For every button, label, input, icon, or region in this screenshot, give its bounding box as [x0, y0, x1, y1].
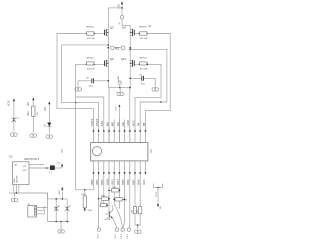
svg-text:LM2574HVN-5: LM2574HVN-5	[24, 159, 40, 161]
svg-text:GND: GND	[105, 179, 109, 185]
svg-text:X3-1: X3-1	[115, 233, 117, 238]
svg-text:OSC2: OSC2	[95, 118, 99, 126]
svg-text:SB: SB	[142, 122, 146, 126]
svg-text:100u: 100u	[44, 206, 46, 210]
svg-text:X2-1: X2-1	[97, 233, 99, 238]
svg-text:IRFZ44: IRFZ44	[139, 57, 147, 59]
svg-text:M1: M1	[115, 46, 120, 50]
svg-text:10k: 10k	[37, 112, 39, 115]
svg-text:R2 10R: R2 10R	[140, 38, 148, 40]
svg-text:R1 10R: R1 10R	[87, 38, 95, 40]
svg-text:R13: R13	[123, 199, 128, 201]
svg-text:X3-3: X3-3	[127, 233, 129, 238]
svg-text:Q4: Q4	[122, 26, 126, 30]
svg-text:ON/OFF: ON/OFF	[17, 175, 19, 183]
svg-text:T1: T1	[105, 213, 108, 215]
svg-text:R4 10R: R4 10R	[140, 69, 148, 71]
svg-text:RA1: RA1	[142, 179, 146, 185]
svg-text:IC1: IC1	[61, 148, 64, 152]
svg-text:C7: C7	[68, 206, 71, 208]
svg-text:MB: MB	[111, 122, 115, 126]
svg-text:F1: F1	[119, 21, 121, 24]
svg-text:+5V: +5V	[44, 107, 47, 112]
svg-text:+12V: +12V	[117, 4, 120, 10]
svg-text:VCC: VCC	[131, 120, 135, 126]
svg-text:D2: D2	[44, 124, 46, 127]
svg-text:RB6: RB6	[126, 179, 130, 185]
svg-text:MA: MA	[105, 122, 109, 126]
svg-text:RB4: RB4	[116, 179, 120, 185]
svg-text:+5V: +5V	[116, 106, 118, 110]
svg-text:C4: C4	[16, 118, 19, 120]
svg-text:GND: GND	[14, 178, 16, 183]
svg-text:GND: GND	[126, 120, 130, 126]
svg-text:+5V: +5V	[56, 163, 60, 165]
svg-text:RB7: RB7	[131, 179, 135, 185]
svg-text:+12V: +12V	[59, 190, 61, 196]
svg-text:RB3: RB3	[111, 179, 115, 185]
svg-text:RA4: RA4	[100, 120, 104, 126]
svg-text:(2): (2)	[148, 25, 151, 28]
svg-text:RB5: RB5	[121, 179, 125, 185]
svg-text:C6: C6	[57, 206, 60, 208]
svg-text:GND: GND	[118, 75, 120, 80]
svg-text:RB0: RB0	[90, 179, 94, 185]
svg-text:Q9: Q9	[110, 57, 114, 61]
svg-text:IC1: IC1	[150, 148, 153, 152]
svg-text:VM: VM	[160, 206, 162, 209]
svg-text:+5V: +5V	[27, 102, 30, 107]
svg-text:100n: 100n	[141, 83, 145, 85]
svg-text:RB1: RB1	[95, 179, 99, 185]
svg-text:GND: GND	[87, 210, 92, 212]
svg-text:L1: L1	[49, 172, 52, 174]
svg-text:X3-2: X3-2	[121, 233, 123, 238]
svg-text:SA: SA	[137, 122, 141, 126]
svg-text:R11: R11	[27, 111, 30, 116]
svg-text:IRFZ44: IRFZ44	[86, 57, 94, 59]
svg-text:Q3: Q3	[110, 26, 114, 30]
svg-text:100n: 100n	[89, 86, 93, 88]
svg-text:IC2: IC2	[9, 156, 13, 159]
svg-text:RB2: RB2	[100, 179, 104, 185]
svg-text:Q10: Q10	[121, 57, 127, 61]
svg-text:GB: GB	[121, 122, 125, 126]
svg-text:+12V: +12V	[155, 191, 157, 197]
svg-text:IRFZ44: IRFZ44	[139, 26, 147, 28]
svg-text:RA0: RA0	[137, 179, 141, 185]
svg-text:IRFZ44: IRFZ44	[86, 26, 94, 28]
svg-text:R3 10R: R3 10R	[87, 69, 95, 71]
svg-text:OSC1: OSC1	[90, 118, 94, 126]
svg-text:+IN: +IN	[14, 164, 18, 166]
svg-text:C8: C8	[86, 78, 90, 80]
svg-text:+12V: +12V	[7, 100, 10, 106]
svg-text:OUT: OUT	[22, 170, 27, 172]
